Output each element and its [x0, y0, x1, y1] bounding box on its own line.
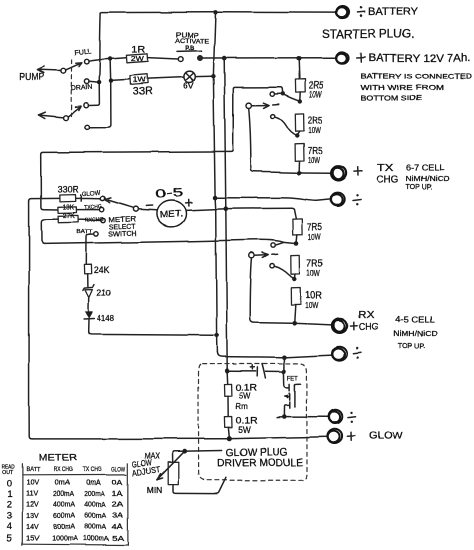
wire 24K to zener: [87, 274, 89, 287]
svg-text:210: 210: [96, 288, 111, 298]
svg-text:330R: 330R: [58, 184, 80, 195]
svg-text:STARTER PLUG.: STARTER PLUG.: [323, 29, 415, 41]
svg-text:0: 0: [7, 479, 12, 490]
connector glow plus: [327, 429, 342, 443]
svg-text:800mA: 800mA: [53, 523, 75, 530]
wire glow bottom rail: [32, 437, 327, 439]
svg-text:5W: 5W: [238, 425, 251, 435]
capacitor electrolytic: [251, 364, 282, 378]
node +12 bus top: [222, 56, 227, 61]
svg-text:3A: 3A: [112, 513, 123, 520]
svg-text:P.B: P.B: [185, 45, 194, 52]
svg-text:RXCHG: RXCHG: [84, 217, 104, 224]
node FET source: [282, 414, 287, 419]
wire glow sense long vertical: [29, 201, 32, 439]
svg-text:4A: 4A: [112, 523, 123, 530]
wire 13K right to contact: [77, 209, 100, 211]
wire 2R5 second to node: [297, 131, 299, 136]
label 7R5 10W RX second: [306, 259, 322, 279]
resistor 13K: [58, 206, 77, 213]
wire 1W to lamp: [148, 77, 184, 79]
wire BATT contact down to 24K: [86, 234, 94, 264]
svg-text:7R5: 7R5: [306, 259, 322, 270]
node glow module top: [282, 355, 287, 360]
svg-text:12V: 12V: [26, 501, 39, 508]
resistor 2R5 10W second: [295, 114, 304, 131]
wire source to glow minus connector: [287, 416, 328, 418]
wire wiper into module: [187, 450, 221, 453]
wire 13K feed path to TX tap: [41, 87, 283, 209]
label READ OUT: [2, 465, 15, 476]
wire diode down to negative bus: [89, 319, 214, 335]
svg-text:DRIVER MODULE: DRIVER MODULE: [217, 456, 303, 469]
svg-text:15V: 15V: [26, 536, 39, 543]
svg-text:4-5 CELL: 4-5 CELL: [395, 315, 435, 325]
switch contact RX 1: [271, 243, 275, 247]
resistor 7R5 10W TX: [295, 144, 304, 161]
label RX CHG: [351, 310, 379, 333]
wire +12 node down to shunt: [226, 373, 229, 384]
wire shunt bottom to glow rail: [227, 428, 230, 436]
svg-text:METER: METER: [38, 452, 77, 463]
node pot wiper: [182, 449, 187, 454]
node diode to negative bus: [214, 333, 219, 338]
switch contact bottom: [85, 125, 90, 130]
svg-text:CHG: CHG: [359, 322, 379, 333]
wire zener to diode: [88, 298, 90, 311]
wire wiper to meter minus: [138, 209, 156, 210]
label plus sign battery: [357, 53, 365, 62]
table frame: [22, 464, 128, 545]
wire negative bus vertical: [213, 12, 217, 352]
svg-text:10W: 10W: [307, 269, 320, 278]
resistor 27K: [58, 215, 78, 222]
label 10R 10W: [305, 291, 322, 311]
svg-text:200mA: 200mA: [53, 491, 74, 498]
wire left drop from top rail to FULL line: [99, 13, 102, 59]
switch contact TX 2: [270, 114, 274, 118]
table row 0: [7, 479, 123, 490]
diode 4148: [84, 311, 94, 319]
node TX contact1: [281, 92, 285, 96]
svg-text:TOP UP.: TOP UP.: [406, 182, 433, 191]
resistor R 1R 2W: [126, 54, 148, 63]
wire TX contact2 to tap2: [275, 117, 298, 136]
connector plus battery: [336, 52, 349, 63]
svg-text:DRAIN: DRAIN: [71, 84, 93, 92]
wire pot bottom return: [174, 478, 226, 494]
svg-text:10W: 10W: [308, 233, 321, 242]
wire source stub left: [277, 416, 282, 418]
rotary common TX: [246, 103, 278, 108]
svg-text:10V: 10V: [26, 480, 39, 487]
svg-text:10W: 10W: [309, 90, 322, 99]
node capacitor right: [282, 369, 286, 373]
svg-text:4: 4: [7, 521, 12, 532]
wire RX common down to output: [250, 258, 291, 323]
wire 27K left loop down to RX sense: [41, 219, 58, 244]
svg-text:1A: 1A: [112, 491, 123, 498]
wire +12 to 2R5 first: [298, 58, 301, 79]
svg-text:BATT: BATT: [26, 466, 40, 473]
node meter plus on +12 bus: [224, 206, 229, 211]
wire 330R left to long glow sense: [29, 198, 60, 201]
wire vertical link full-33R-contact4: [89, 59, 111, 127]
svg-text:MIN: MIN: [147, 486, 163, 495]
wire FET drain rail: [283, 357, 285, 384]
wire 7R5 second to node: [293, 274, 296, 279]
svg-text:400mA: 400mA: [84, 501, 106, 508]
label 0.1R 5W second: [236, 416, 258, 435]
wire full node to resistor 1R: [112, 58, 126, 59]
switch contact TXCHG: [99, 207, 103, 211]
svg-text:2W: 2W: [131, 54, 144, 63]
svg-text:5W: 5W: [239, 390, 251, 400]
rotary wiper meter: [105, 198, 138, 212]
svg-text:400mA: 400mA: [53, 501, 75, 508]
svg-text:10R: 10R: [305, 291, 322, 302]
label plus TX: [354, 167, 362, 175]
table row 1: [7, 489, 123, 500]
svg-text:10W: 10W: [308, 126, 321, 135]
svg-text:RX CHG: RX CHG: [53, 466, 72, 473]
table header: [26, 466, 126, 473]
svg-text:0-5: 0-5: [155, 187, 183, 201]
resistor 7R5 10W RX second: [291, 255, 300, 274]
svg-text:10W: 10W: [305, 301, 318, 310]
wire TX contact1 to tap1: [283, 94, 300, 101]
connector RX plus: [332, 318, 347, 332]
zener 210: [83, 285, 94, 297]
label GLOW PLUG DRIVER MODULE: [217, 446, 303, 470]
svg-text:GLOW: GLOW: [369, 431, 403, 442]
switch contact RX 2: [270, 264, 274, 268]
svg-text:BATTERY IS CONNECTED: BATTERY IS CONNECTED: [361, 73, 473, 80]
node top rail to negative bus: [213, 10, 217, 14]
svg-text:2: 2: [7, 500, 12, 511]
wire lamp to negative bus: [195, 75, 211, 77]
svg-text:5A: 5A: [112, 534, 124, 543]
svg-text:BATTERY 12V 7Ah.: BATTERY 12V 7Ah.: [368, 53, 471, 65]
svg-text:13K: 13K: [63, 202, 75, 211]
label METER SELECT SWITCH: [108, 216, 136, 238]
table row 4: [7, 521, 124, 532]
wire negative bus corner to RX minus connector: [217, 352, 332, 357]
resistor 330R: [60, 194, 76, 201]
label minus meter: [146, 205, 152, 207]
dashed mechanical link: [70, 60, 73, 117]
rotary common RX: [249, 253, 277, 259]
module boundary dashed: [199, 363, 308, 480]
svg-text:BATTERY: BATTERY: [369, 6, 420, 18]
wire vertical link contacts 2-3: [88, 59, 100, 105]
table row 3: [7, 511, 124, 522]
label 2R5 10W first: [309, 81, 324, 99]
node TX tap2: [295, 134, 299, 138]
switch contact TX 1: [270, 92, 274, 96]
label 4-5 CELL note: [393, 315, 439, 351]
svg-text:6V: 6V: [183, 81, 194, 91]
switch contact BATT: [94, 232, 98, 236]
label GLOW ADJUST: [132, 458, 161, 479]
svg-text:600mA: 600mA: [53, 513, 75, 520]
resistor 24K: [84, 264, 91, 274]
connector minus battery: [336, 7, 349, 19]
svg-text:OUT: OUT: [2, 470, 14, 476]
svg-text:BOTTOM SIDE: BOTTOM SIDE: [361, 95, 422, 102]
label plus sign glow: [347, 432, 354, 440]
label minus sign RX: [353, 347, 361, 359]
lamp 6V: [184, 71, 195, 82]
svg-text:SWITCH: SWITCH: [109, 231, 137, 239]
node TX tap1: [298, 99, 302, 103]
wire node to capacitor: [230, 370, 257, 372]
svg-text:0mA: 0mA: [55, 480, 70, 487]
label 0.1R 5W Rm: [236, 383, 258, 411]
svg-text:600mA: 600mA: [84, 513, 106, 520]
wire 7R5 to RX tap1: [295, 235, 298, 244]
svg-text:3: 3: [7, 511, 12, 522]
svg-text:0mA: 0mA: [86, 480, 101, 487]
svg-text:24K: 24K: [94, 265, 110, 275]
svg-text:4148: 4148: [97, 313, 115, 323]
switch contact full: [84, 59, 89, 64]
node TX output: [297, 171, 302, 176]
label minus sign glow: [348, 412, 356, 423]
wire 330R right to contact: [76, 194, 100, 200]
wire negative top rail horizontal: [101, 12, 337, 13]
svg-text:27K: 27K: [63, 211, 75, 220]
svg-text:33R: 33R: [133, 86, 153, 98]
wire pushbutton to +battery: [203, 57, 337, 59]
svg-text:11V: 11V: [26, 491, 38, 498]
connector RX minus: [332, 347, 347, 361]
wire 10R to RX output: [293, 305, 296, 321]
svg-text:TX: TX: [377, 163, 394, 174]
wire RX contact1 to tap1: [275, 242, 293, 245]
svg-text:RX: RX: [358, 310, 374, 321]
meter MET 0-5: [156, 201, 186, 227]
resistor R 1W 33R: [130, 74, 148, 84]
label battery note: [361, 73, 473, 102]
wire full contact to node: [89, 59, 109, 61]
svg-text:WITH WIRE FROM: WITH WIRE FROM: [361, 85, 444, 92]
node TX chain feed: [296, 56, 301, 61]
svg-text:0A: 0A: [112, 480, 123, 487]
svg-text:6-7 CELL: 6-7 CELL: [406, 163, 445, 173]
svg-text:2A: 2A: [112, 501, 123, 508]
svg-text:GLOW: GLOW: [112, 467, 127, 474]
switch arm 1 with pump arrow: [38, 63, 81, 73]
svg-text:MET.: MET.: [159, 208, 183, 220]
potentiometer glow adjust: [157, 452, 184, 485]
switch contact RXCHG: [101, 218, 105, 222]
svg-text:Rm: Rm: [236, 401, 249, 411]
wire pot top lead: [173, 451, 182, 462]
wire contact2 stub: [89, 80, 97, 83]
node glow sense: [227, 436, 232, 441]
svg-text:800mA: 800mA: [84, 523, 106, 530]
table row 2: [7, 500, 124, 511]
label minus sign TX: [353, 194, 361, 205]
label 6-7 CELL note: [406, 163, 450, 192]
wire 1R to pushbutton: [148, 58, 178, 59]
wire RX sense long to tap: [44, 240, 283, 244]
label minus sign battery: [358, 6, 366, 17]
pushbutton PUMP ACTIVATE: [177, 51, 202, 62]
label PUMP ACTIVATE P.B: [175, 32, 209, 52]
switch contact drain upper: [84, 79, 89, 84]
svg-text:1000mA: 1000mA: [52, 536, 78, 543]
svg-text:FET: FET: [287, 376, 298, 382]
node RX tap1: [294, 241, 299, 246]
transistor FET: [284, 384, 301, 414]
resistor 0.1R 5W second: [224, 417, 232, 428]
svg-text:1W: 1W: [133, 75, 146, 84]
switch contact drain lower: [84, 103, 89, 108]
wire TX common down to output: [249, 108, 297, 173]
switch arm 2 with pump arrow: [38, 106, 81, 120]
table row 5: [6, 533, 124, 545]
connector TX minus: [331, 193, 345, 206]
node +12 into module: [225, 368, 230, 373]
wire 27K right to contact: [78, 219, 100, 222]
wire meter plus to +12 bus and RX chain: [186, 208, 296, 218]
wire 7R5 to TX output node: [298, 161, 300, 170]
label plus meter: [185, 199, 191, 206]
svg-text:CHG: CHG: [377, 175, 399, 186]
connector glow minus: [328, 410, 342, 424]
svg-text:GLOW: GLOW: [82, 189, 101, 197]
resistor 2R5 10W first: [295, 79, 305, 92]
label 7R5 10W TX: [308, 146, 323, 165]
wire RX contact2 to tap2: [274, 266, 294, 279]
svg-text:5: 5: [6, 533, 12, 545]
label 2R5 10W second: [308, 116, 323, 135]
node RX output: [292, 321, 297, 326]
svg-text:TX CHG: TX CHG: [82, 466, 102, 473]
wire TX contact1 stub: [275, 93, 281, 95]
label 7R5 10W RX first: [307, 222, 322, 242]
wire TX minus to connector: [217, 198, 330, 201]
svg-text:14V: 14V: [26, 523, 39, 530]
node 33R tap: [109, 78, 113, 82]
wire +12 bus vertical: [224, 58, 227, 371]
resistor 0.1R 5W first: [224, 384, 232, 396]
wire 2R5 to node: [299, 92, 301, 101]
wire RX output to connector: [297, 323, 333, 325]
svg-text:13V: 13V: [26, 513, 39, 520]
wire shunt mid: [227, 396, 229, 416]
wire 33R tap to resistor 1W: [113, 79, 130, 80]
svg-text:200mA: 200mA: [84, 491, 105, 498]
svg-text:10W: 10W: [308, 156, 321, 165]
node RX tap2: [292, 277, 296, 281]
svg-text:1000mA: 1000mA: [83, 536, 109, 543]
svg-text:1: 1: [7, 489, 12, 500]
node full line: [108, 57, 112, 61]
svg-text:ACTIVATE: ACTIVATE: [175, 39, 209, 45]
svg-text:NiMH/NiCD: NiMH/NiCD: [393, 329, 439, 338]
node drain upper: [97, 80, 101, 84]
node lamp negative: [211, 74, 215, 78]
svg-text:PUMP: PUMP: [20, 72, 45, 83]
resistor 7R5 10W RX first: [292, 218, 302, 234]
switch contact GLOW: [100, 196, 104, 200]
svg-text:TXCHG: TXCHG: [84, 204, 102, 211]
wire TX output to connector: [302, 172, 331, 174]
node TX minus on bus: [213, 195, 218, 200]
connector TX plus: [331, 166, 346, 180]
resistor 10R 10W: [291, 288, 301, 305]
svg-text:TOP UP.: TOP UP.: [397, 341, 425, 350]
label TX CHG: [377, 163, 399, 185]
svg-text:7R5: 7R5: [307, 222, 322, 233]
